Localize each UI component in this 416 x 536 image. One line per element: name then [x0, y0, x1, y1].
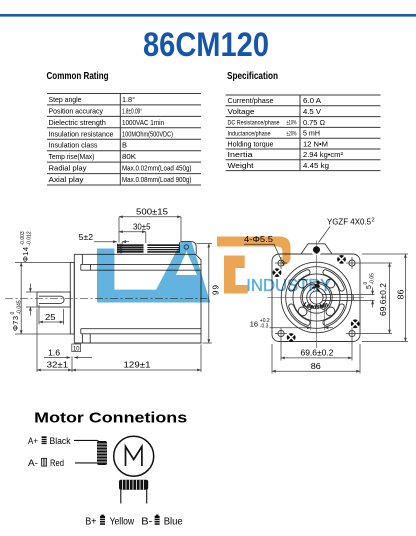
side view tie-rod top band — [81, 254, 201, 270]
svg-text:1.8±0.09°: 1.8±0.09° — [122, 106, 142, 115]
svg-text:2: 2 — [372, 218, 375, 224]
svg-text:B: B — [122, 141, 127, 150]
svg-text:30±5: 30±5 — [133, 223, 151, 232]
dim Φ73 — [20, 263, 22, 335]
svg-text:±20%: ±20% — [287, 131, 297, 137]
dim 99 — [208, 244, 210, 343]
dim 86 bottom — [272, 344, 360, 374]
svg-text:Current/phase: Current/phase — [228, 96, 274, 105]
dim 10 box — [72, 344, 81, 352]
svg-text:-0.012: -0.012 — [27, 231, 33, 245]
side view pilot boss — [70, 263, 74, 335]
svg-text:INDUSTRY: INDUSTRY — [246, 275, 331, 295]
cable gland — [301, 244, 332, 254]
common rating table grid — [47, 94, 201, 186]
svg-text:Specification: Specification — [227, 70, 278, 82]
shaft key flat — [39, 296, 64, 303]
svg-text:25: 25 — [45, 313, 56, 322]
watermark P bowl — [217, 237, 291, 265]
wires B — [121, 490, 147, 504]
svg-text:0: 0 — [10, 312, 16, 315]
svg-text:Insulation resistance: Insulation resistance — [49, 129, 114, 138]
svg-text:1.6: 1.6 — [48, 348, 61, 357]
shaft hub — [310, 291, 323, 304]
svg-text:5±2: 5±2 — [79, 233, 94, 242]
svg-text:Dielectric strength: Dielectric strength — [49, 118, 106, 127]
keyway lines — [323, 295, 354, 301]
specification table text — [228, 96, 344, 170]
svg-text:Common Rating: Common Rating — [47, 70, 109, 82]
dim 69.6±0.2 right — [358, 263, 393, 334]
svg-text:Inertia: Inertia — [228, 150, 254, 159]
svg-text:Voltage: Voltage — [228, 107, 255, 116]
svg-text:Holding torque: Holding torque — [228, 139, 274, 148]
svg-text:12 N•M: 12 N•M — [303, 139, 328, 148]
svg-text:500±15: 500±15 — [136, 208, 169, 217]
svg-text:B-: B- — [141, 517, 152, 528]
centerline — [5, 297, 207, 299]
svg-text:5: 5 — [366, 285, 373, 289]
svg-text:1000VAC 1min: 1000VAC 1min — [122, 118, 164, 127]
svg-text:Temp rise(Max): Temp rise(Max) — [49, 152, 95, 161]
svg-text:Φ14: Φ14 — [21, 247, 30, 262]
top blue rule — [0, 14, 416, 17]
leadshine script — [303, 306, 329, 309]
svg-text:Blue: Blue — [164, 517, 183, 528]
svg-text:Φ73: Φ73 — [11, 316, 20, 331]
svg-text:4.5 V: 4.5 V — [303, 107, 321, 116]
side view tie-rod bottom band — [81, 329, 201, 343]
front view centerlines — [267, 241, 364, 349]
svg-text:16: 16 — [250, 320, 258, 329]
svg-text:6.0 A: 6.0 A — [303, 96, 321, 105]
dim 69.6±0.2 bottom — [281, 339, 352, 361]
front inner circle — [286, 267, 348, 329]
svg-text:Insulation class: Insulation class — [49, 141, 98, 150]
svg-text:Axial play: Axial play — [49, 175, 84, 184]
svg-text:Weight: Weight — [228, 161, 254, 170]
svg-text:4.45 kg: 4.45 kg — [303, 161, 329, 170]
cable bundle — [117, 244, 180, 254]
svg-text:Max.0.08mm(Load 900g): Max.0.08mm(Load 900g) — [122, 175, 192, 184]
svg-text:86: 86 — [311, 362, 322, 371]
coil A (phase A winding) — [97, 441, 107, 465]
watermark A — [149, 242, 210, 303]
svg-text:-0.3: -0.3 — [260, 324, 269, 330]
svg-text:-0.003: -0.003 — [20, 231, 26, 245]
svg-text:A+: A+ — [28, 436, 38, 446]
wire A- — [75, 462, 97, 464]
svg-text:Radial play: Radial play — [49, 164, 87, 173]
common rating table text — [49, 95, 192, 184]
specification table grid — [226, 95, 381, 171]
coil B (phase B winding) — [119, 480, 148, 490]
corner mounting holes 4-Φ5.5 — [275, 257, 358, 340]
svg-text:69.6±0.2: 69.6±0.2 — [379, 282, 388, 316]
svg-text:1.8°: 1.8° — [122, 95, 135, 104]
svg-text:A-: A- — [28, 458, 38, 468]
svg-text:80K: 80K — [122, 152, 136, 161]
svg-text:0.75 Ω: 0.75 Ω — [303, 118, 325, 127]
cover screws — [273, 255, 360, 342]
watermark P bracket — [224, 256, 248, 294]
svg-text:99: 99 — [212, 284, 221, 295]
dim 5-0.05 (key width) — [353, 295, 374, 301]
svg-text:±10%: ±10% — [287, 121, 297, 127]
svg-text:Yellow: Yellow — [110, 517, 135, 528]
svg-text:86CM120: 86CM120 — [143, 26, 269, 64]
svg-text:-0.05: -0.05 — [370, 273, 376, 285]
motor circle M — [114, 436, 154, 476]
cable connector — [180, 242, 197, 255]
side view motor body — [74, 254, 201, 343]
side view shaft — [37, 292, 70, 307]
leadshine runner logo — [312, 281, 321, 293]
svg-text:100MOhm(500VDC): 100MOhm(500VDC) — [122, 129, 173, 138]
svg-text:Step angle: Step angle — [49, 95, 82, 104]
svg-text:YGZF 4X0.5: YGZF 4X0.5 — [327, 218, 372, 227]
wire A+ — [74, 440, 99, 441]
svg-text:Position accuracy: Position accuracy — [49, 106, 104, 115]
svg-text:129±1: 129±1 — [124, 360, 152, 369]
svg-text:B+: B+ — [85, 517, 96, 528]
svg-text:0: 0 — [363, 282, 369, 285]
svg-text:10: 10 — [73, 346, 80, 353]
svg-text:5 mH: 5 mH — [303, 129, 320, 138]
dim 16 keyway — [311, 302, 325, 330]
svg-text:-0.045: -0.045 — [17, 300, 23, 314]
svg-text:Red: Red — [50, 458, 64, 468]
front view flange square — [272, 254, 360, 342]
dim Φ14 — [29, 284, 31, 293]
svg-text:Motor Connetions: Motor Connetions — [34, 410, 187, 427]
front outer circle — [281, 262, 352, 333]
svg-text:Inductance/phase: Inductance/phase — [228, 130, 271, 137]
svg-text:Max.0.02mm(Load 450g): Max.0.02mm(Load 450g) — [122, 164, 192, 173]
dim 86 right — [362, 254, 408, 342]
svg-text:32±1: 32±1 — [47, 360, 69, 369]
watermark LAP INDUSTRY — [97, 237, 332, 303]
watermark L — [97, 249, 156, 303]
svg-text:DC Resistance/phase: DC Resistance/phase — [228, 120, 280, 127]
svg-text:86: 86 — [397, 289, 406, 300]
svg-text:69.6±0.2: 69.6±0.2 — [301, 349, 335, 358]
svg-text:Black: Black — [50, 436, 71, 446]
svg-text:2.94 kg•cm²: 2.94 kg•cm² — [303, 150, 344, 159]
vent slots — [289, 270, 344, 325]
